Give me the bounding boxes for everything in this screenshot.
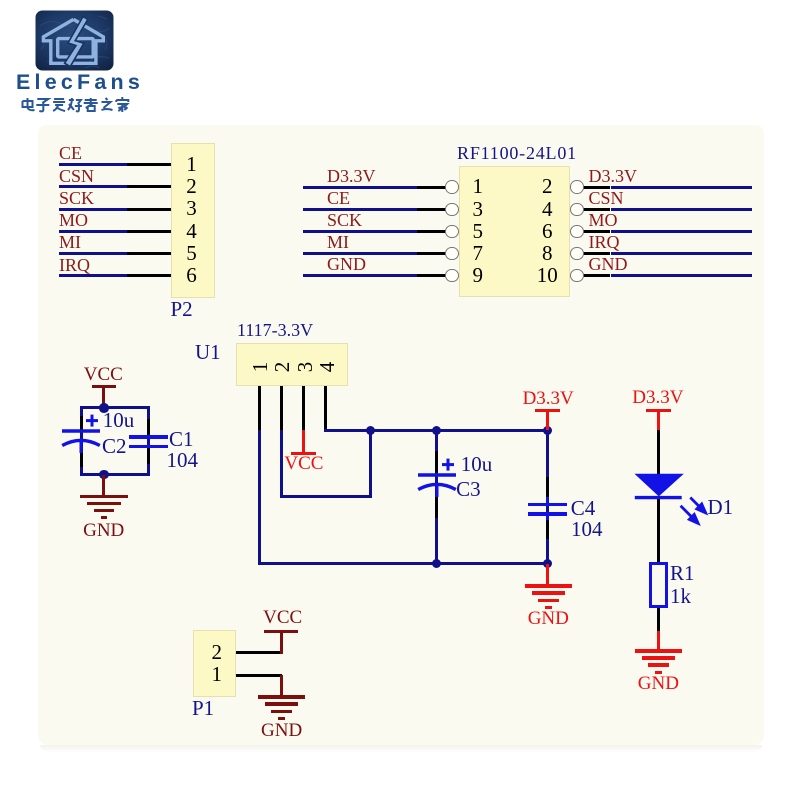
power VCC label P1 bbox=[223, 608, 343, 627]
net label GND bbox=[327, 255, 366, 273]
net label D3.3V bbox=[589, 167, 638, 185]
net label CE bbox=[327, 189, 350, 207]
RF1100 pin 1 circle bbox=[445, 180, 458, 193]
connector P2 pin 5 bbox=[127, 252, 171, 255]
wire bbox=[611, 208, 753, 211]
net label IRQ bbox=[59, 256, 90, 274]
RF1100 pin 10 circle bbox=[570, 269, 583, 282]
resistor R1 body bbox=[649, 562, 668, 609]
net label D3.3V bbox=[327, 167, 376, 185]
LED D1 symbol bbox=[630, 470, 735, 528]
connector P2 body bbox=[171, 143, 215, 298]
value 10u of C2 bbox=[103, 410, 135, 431]
junction bbox=[432, 426, 442, 436]
connector P2 pin 1 bbox=[127, 163, 171, 166]
capacitor C4 stub bbox=[546, 515, 549, 520]
ground stem bbox=[102, 475, 105, 497]
U1 pin 4 bbox=[324, 386, 327, 431]
ground stem bbox=[546, 564, 549, 586]
wire bbox=[303, 186, 417, 189]
RF1100 pin 6 bbox=[583, 230, 610, 233]
connector P2 pin 3 bbox=[127, 208, 171, 211]
RF1100 pin 2 bbox=[583, 186, 610, 189]
wire bbox=[59, 230, 127, 233]
RF1100 pin 6 circle bbox=[570, 225, 583, 238]
wire bbox=[303, 274, 417, 277]
pin number 2 of P2 bbox=[132, 176, 252, 197]
net label MO bbox=[589, 211, 618, 229]
RF1100 pin 3 bbox=[417, 208, 446, 211]
capacitor C3 pin bbox=[435, 497, 438, 518]
U1 pin number 1 (rotated) bbox=[248, 356, 270, 378]
pin number 3 bbox=[418, 199, 538, 220]
RF1100 pin 8 bbox=[583, 252, 610, 255]
wire bbox=[59, 252, 127, 255]
pin number 8 bbox=[487, 243, 607, 264]
wire bbox=[80, 408, 83, 475]
LED D1 anode pin bbox=[657, 430, 660, 474]
ground GND P1 bbox=[258, 695, 306, 698]
ground stem bbox=[280, 675, 283, 697]
RF1100 pin 7 circle bbox=[445, 247, 458, 260]
resistor R1 pin bbox=[657, 608, 660, 632]
junction bbox=[543, 426, 553, 436]
value 104 of C4 bbox=[571, 519, 603, 540]
ground stem bbox=[657, 631, 660, 651]
value 1k of R1 bbox=[670, 586, 691, 607]
U1 pin number 4 (rotated) bbox=[315, 356, 337, 378]
designator D1 bbox=[708, 497, 734, 518]
wire bbox=[258, 430, 261, 563]
ground GND middle bbox=[525, 584, 573, 587]
power VCC label bbox=[244, 454, 364, 473]
designator U1 bbox=[195, 342, 221, 363]
designator C4 bbox=[571, 498, 596, 519]
logo ElecFans emblem bbox=[35, 10, 114, 71]
pin number 1 of P2 bbox=[132, 154, 252, 175]
capacitor C4 pin bbox=[546, 477, 549, 497]
pin number 2 bbox=[487, 176, 607, 197]
U1 pin number 2 (rotated) bbox=[270, 356, 292, 378]
card background bbox=[38, 125, 764, 745]
wire bbox=[280, 430, 283, 497]
capacitor C3 pin bbox=[435, 451, 438, 474]
wire bbox=[59, 208, 127, 211]
wire bbox=[324, 429, 549, 432]
capacitor C4 symbol bbox=[528, 503, 567, 506]
power D3.3V bar bbox=[646, 409, 671, 412]
capacitor C1 pin bbox=[147, 448, 150, 464]
power VCC stem bbox=[102, 386, 105, 407]
capacitor C2 pin bbox=[80, 416, 83, 430]
wire bbox=[59, 185, 127, 188]
junction bbox=[99, 403, 109, 413]
RF1100 pin 2 circle bbox=[570, 180, 583, 193]
pin number 1 of P1 bbox=[157, 664, 277, 685]
capacitor C1 symbol bbox=[129, 435, 168, 438]
wire bbox=[258, 562, 549, 565]
RF1100 pin 8 circle bbox=[570, 247, 583, 260]
net label SCK bbox=[59, 189, 94, 207]
designator C1 bbox=[169, 429, 194, 450]
RF1100 pin 4 bbox=[583, 208, 610, 211]
RF1100 pin 9 circle bbox=[445, 269, 458, 282]
RF1100 pin 7 bbox=[417, 252, 446, 255]
wire bbox=[435, 430, 438, 563]
RF1100 pin 5 bbox=[417, 230, 446, 233]
designator P2 bbox=[171, 299, 193, 320]
RF1100 pin 9 bbox=[417, 274, 446, 277]
power D3.3V label bbox=[488, 389, 608, 408]
RF1100 pin 5 circle bbox=[445, 225, 458, 238]
junction bbox=[432, 559, 442, 569]
net label MI bbox=[59, 233, 81, 251]
logo text ElecFans bbox=[16, 72, 144, 94]
pin number 9 bbox=[418, 265, 538, 286]
power VCC bar bbox=[291, 452, 316, 455]
power D3.3V stem bbox=[657, 411, 660, 431]
U1 pin 1 bbox=[258, 386, 261, 431]
designator C3 bbox=[456, 479, 481, 500]
connector P1 pin 2 bbox=[236, 651, 281, 654]
wire bbox=[369, 430, 372, 497]
wire bbox=[80, 473, 150, 476]
module U RF1100-24L01 title bbox=[457, 144, 577, 162]
wire bbox=[611, 274, 753, 277]
RF1100 pin 4 circle bbox=[570, 203, 583, 216]
junction bbox=[99, 470, 109, 480]
card bottom fade bbox=[40, 745, 762, 752]
logo tagline (Chinese) bbox=[20, 97, 146, 114]
net label GND bbox=[589, 255, 628, 273]
connector P2 pin 2 bbox=[127, 185, 171, 188]
wire bbox=[303, 208, 417, 211]
ground GND right bbox=[635, 649, 683, 652]
wire bbox=[546, 430, 549, 563]
power VCC bar bbox=[92, 385, 117, 388]
capacitor C4 pin bbox=[546, 520, 549, 539]
net label IRQ bbox=[589, 233, 620, 251]
power D3.3V bar bbox=[535, 409, 560, 412]
net label MI bbox=[327, 233, 349, 251]
IC U1 body bbox=[236, 343, 349, 386]
power D3.3V label (right) bbox=[598, 388, 718, 407]
wire bbox=[303, 230, 417, 233]
power VCC at U1 pin 3 bbox=[302, 430, 305, 453]
pin number 4 of P2 bbox=[132, 221, 252, 242]
power D3.3V stem bbox=[546, 411, 549, 431]
connector P2 pin 6 bbox=[127, 274, 171, 277]
pin number 2 of P1 bbox=[157, 642, 277, 663]
pin number 10 bbox=[487, 265, 607, 286]
net label CE bbox=[59, 144, 82, 162]
connector P1 pin 1 bbox=[236, 674, 281, 677]
U1 pin 3 bbox=[302, 386, 305, 431]
connector P2 pin 4 bbox=[127, 230, 171, 233]
wire bbox=[611, 186, 753, 189]
power VCC stem bbox=[280, 632, 283, 654]
pin number 5 of P2 bbox=[132, 243, 252, 264]
net label CSN bbox=[589, 189, 624, 207]
U1 pin number 3 (rotated) bbox=[293, 356, 315, 378]
wire bbox=[611, 252, 753, 255]
module RF1100-24L01 body bbox=[459, 166, 570, 297]
capacitor C3 symbol bbox=[413, 457, 461, 501]
pin number 5 bbox=[418, 221, 538, 242]
pin number 4 bbox=[487, 199, 607, 220]
capacitor C2 pin bbox=[80, 452, 83, 467]
capacitor C2 symbol bbox=[57, 413, 105, 457]
RF1100 pin 1 bbox=[417, 186, 446, 189]
net label SCK bbox=[327, 211, 362, 229]
junction bbox=[366, 426, 376, 436]
pin number 7 bbox=[418, 243, 538, 264]
LED D1 cathode pin bbox=[657, 499, 660, 561]
power VCC top-left label bbox=[43, 365, 163, 384]
wire bbox=[80, 406, 150, 409]
net label MO bbox=[59, 211, 88, 229]
IC U1 title 1117-3.3V bbox=[237, 321, 313, 339]
value 10u of C3 bbox=[461, 454, 493, 475]
pin number 6 bbox=[487, 221, 607, 242]
capacitor C4 stub bbox=[546, 497, 549, 503]
wire bbox=[280, 495, 373, 498]
ground GND left bbox=[80, 495, 128, 498]
wire bbox=[611, 230, 753, 233]
wire bbox=[59, 274, 127, 277]
pin number 6 of P2 bbox=[132, 265, 252, 286]
wire bbox=[303, 252, 417, 255]
net label CSN bbox=[59, 167, 94, 185]
RF1100 pin 3 circle bbox=[445, 203, 458, 216]
designator R1 bbox=[670, 563, 695, 584]
power VCC bar bbox=[264, 630, 298, 633]
wire bbox=[147, 408, 150, 475]
RF1100 pin 10 bbox=[583, 274, 610, 277]
value 104 of C1 bbox=[167, 450, 199, 471]
pin number 1 bbox=[418, 176, 538, 197]
capacitor C1 pin bbox=[147, 419, 150, 435]
designator C2 bbox=[102, 436, 127, 457]
connector P1 body bbox=[193, 630, 236, 697]
designator P1 bbox=[192, 698, 214, 719]
U1 pin 2 bbox=[280, 386, 283, 431]
junction bbox=[543, 559, 553, 569]
pin number 3 of P2 bbox=[132, 198, 252, 219]
wire bbox=[59, 163, 127, 166]
